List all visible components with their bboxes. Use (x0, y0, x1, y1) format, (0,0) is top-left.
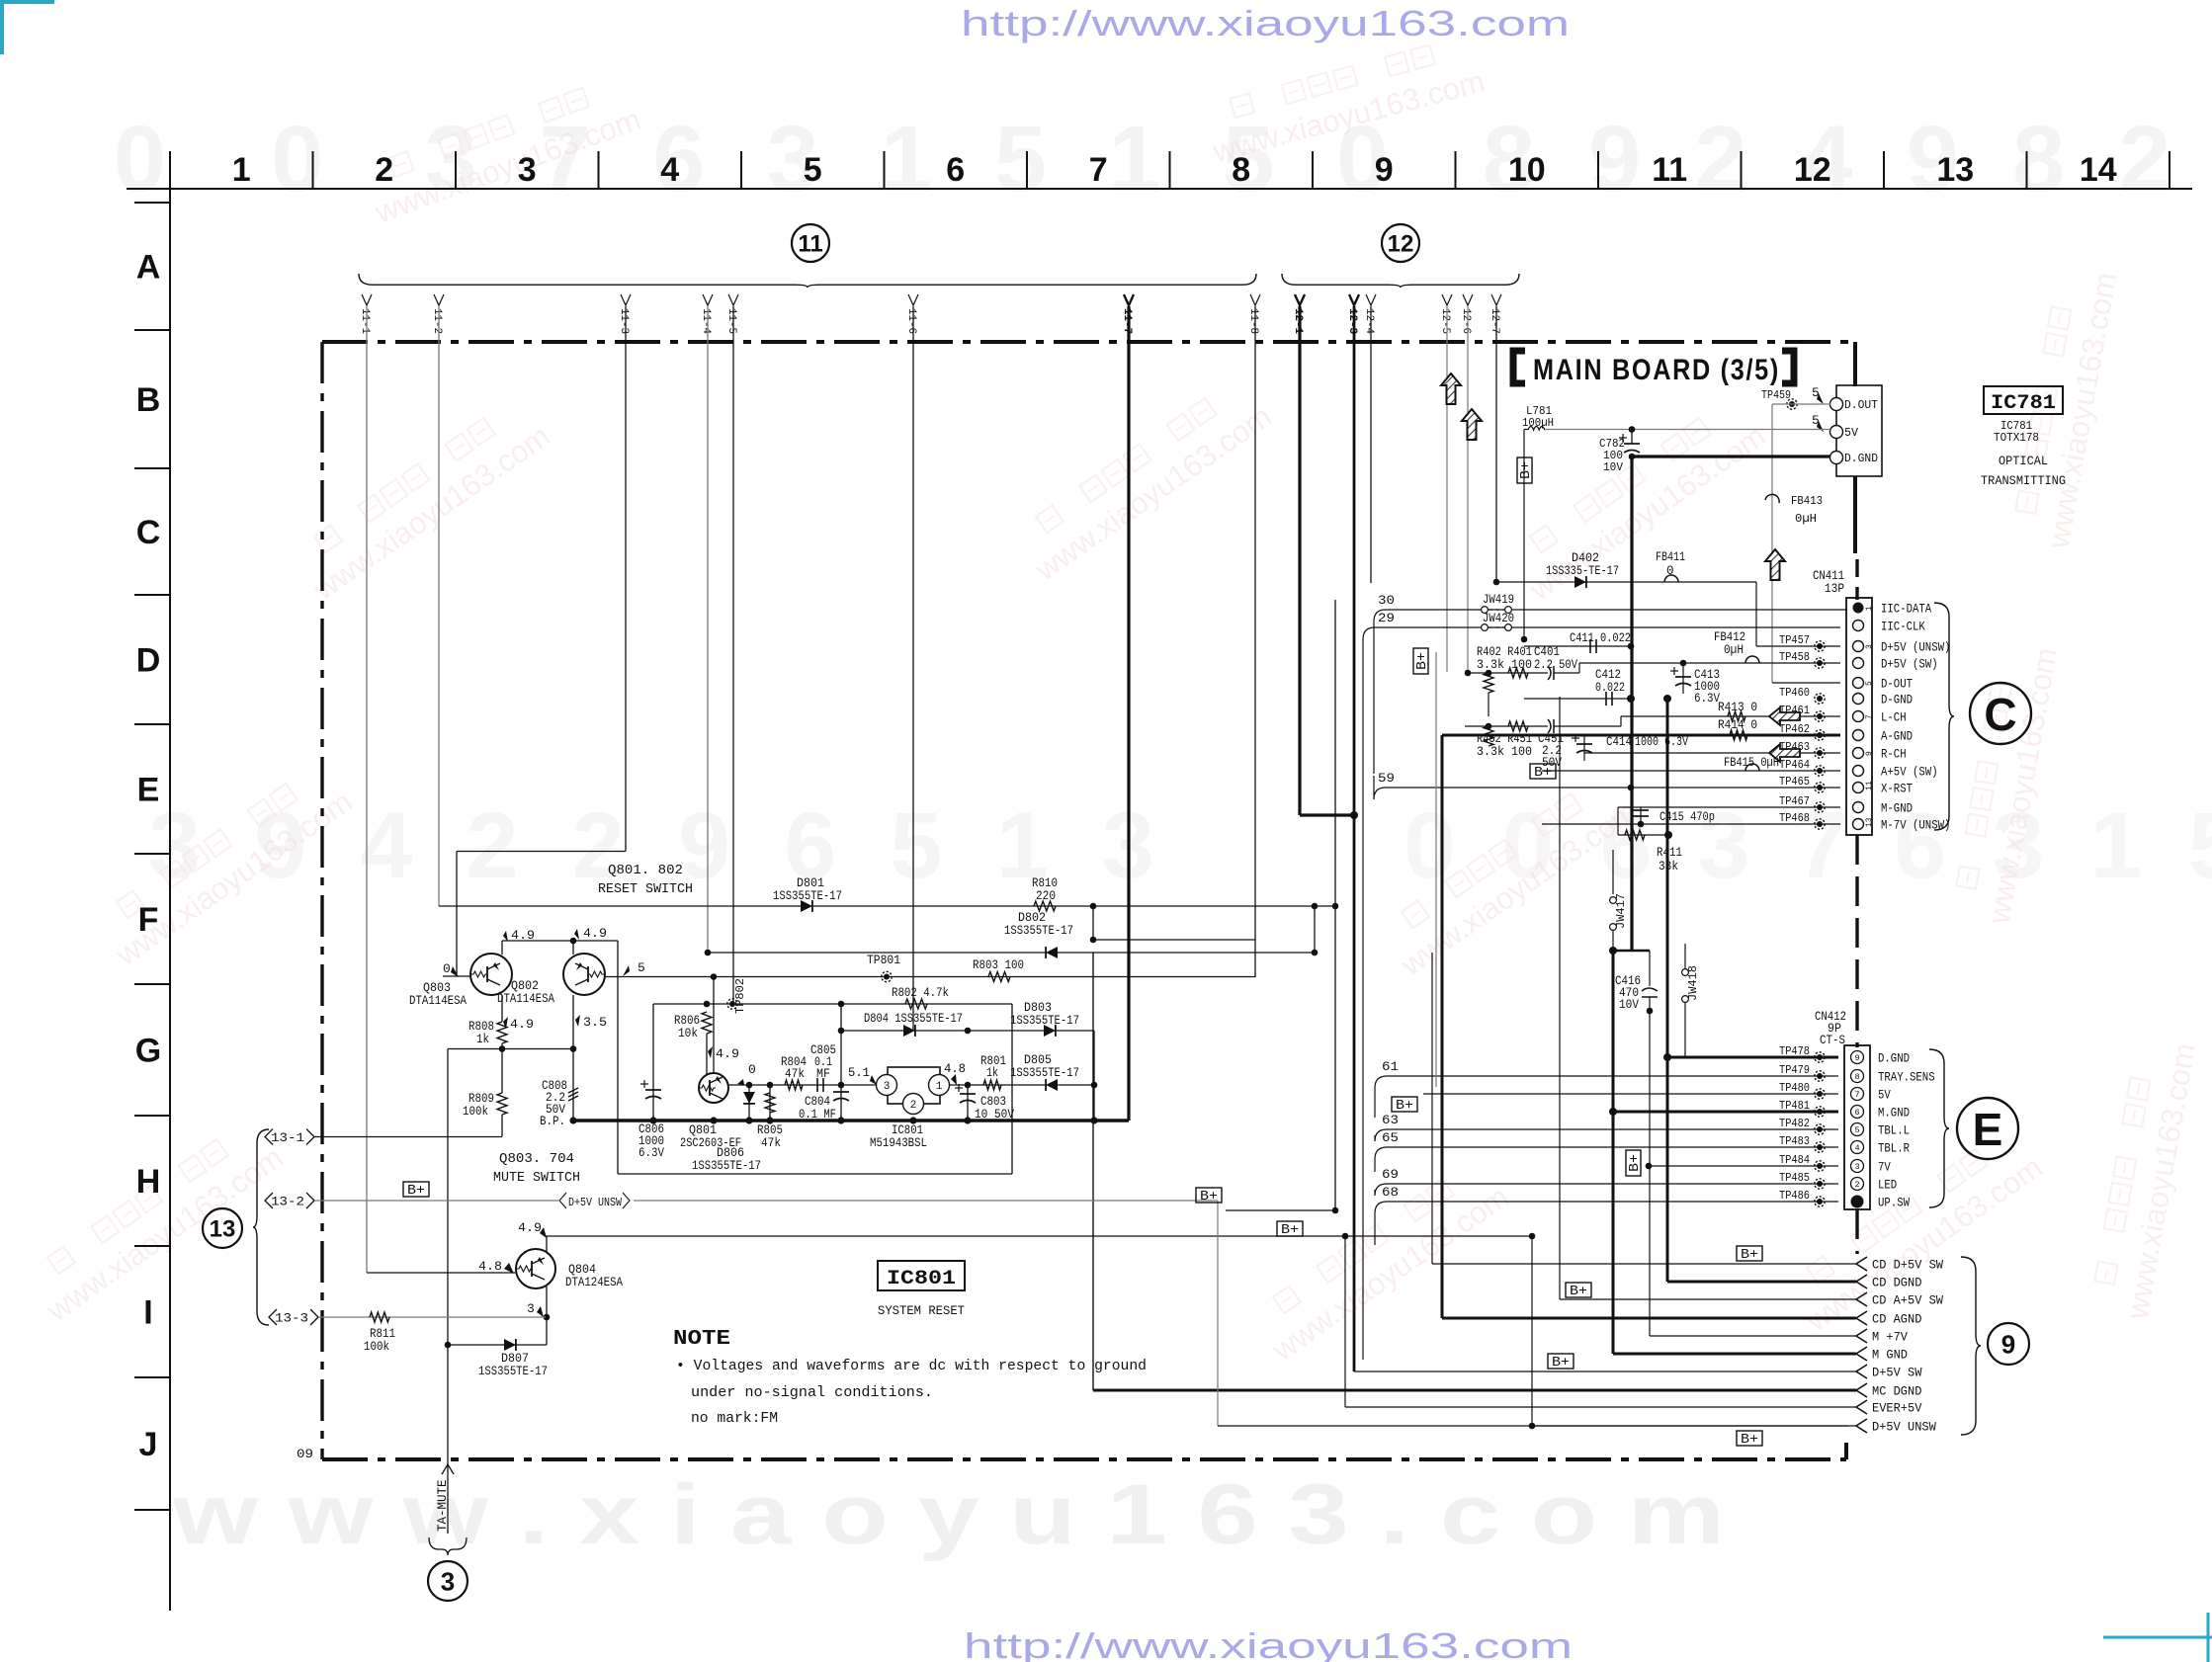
wire 65 (1375, 1147, 1387, 1159)
test point TP467 (1815, 802, 1825, 812)
svg-text:6: 6 (1854, 1108, 1859, 1118)
svg-text:1k: 1k (986, 1066, 998, 1080)
svg-text:C401: C401 (1534, 645, 1560, 659)
svg-text:M +7V: M +7V (1872, 1330, 1908, 1345)
svg-text:1SS355TE-17: 1SS355TE-17 (478, 1365, 548, 1378)
diode D807 row (448, 1344, 547, 1346)
svg-text:D807: D807 (501, 1352, 529, 1366)
svg-text:IIC-CLK: IIC-CLK (1881, 620, 1925, 634)
connector CN411 body (1846, 598, 1872, 835)
test point TP480 (1815, 1089, 1825, 1099)
svg-text:13-2: 13-2 (271, 1196, 304, 1209)
svg-text:1: 1 (1865, 606, 1874, 611)
wire 12-4 drop (1370, 306, 1372, 583)
svg-text:www.xiaoyu163.com: www.xiaoyu163.com (40, 1139, 289, 1328)
ruler tick 9 (1455, 151, 1457, 189)
wire D801 row (917) (439, 905, 1335, 907)
connector CN412 body (1844, 1045, 1870, 1209)
test point TP482 (1815, 1124, 1825, 1134)
svg-text:12-4: 12-4 (1363, 308, 1375, 334)
svg-text:4.9: 4.9 (510, 1017, 534, 1032)
exit wire CD D+5V SW (1432, 1263, 1856, 1265)
svg-text:0.022: 0.022 (1595, 681, 1625, 695)
svg-text:M.GND: M.GND (1878, 1106, 1910, 1121)
board outline right edge dash D (CN411-CN412) (1855, 835, 1858, 1047)
brace 13 group (253, 1129, 269, 1325)
wire TRAY.SENS to pin8 (1814, 1075, 1838, 1077)
svg-text:TP461: TP461 (1779, 704, 1810, 717)
svg-text:7: 7 (1089, 151, 1108, 189)
exit wire M +7V (1650, 1335, 1856, 1337)
svg-text:11-1: 11-1 (359, 308, 371, 334)
wire 11-7 drop (thick) (1127, 306, 1130, 1121)
svg-text:11-2: 11-2 (431, 308, 443, 334)
wire Q804 collector down (546, 1287, 548, 1345)
svg-text:www.xiaoyu163.com: www.xiaoyu163.com (306, 418, 555, 607)
svg-text:www.xiaoyu163.com: www.xiaoyu163.com (2119, 1040, 2202, 1322)
svg-text:TP465: TP465 (1779, 775, 1810, 789)
svg-text:3: 3 (884, 1081, 891, 1093)
svg-text:Q804: Q804 (568, 1263, 596, 1277)
wire L781 left + down (1524, 429, 1528, 431)
svg-text:13: 13 (1865, 817, 1874, 827)
svg-text:5: 5 (804, 151, 822, 189)
svg-text:12: 12 (1388, 231, 1414, 258)
connector arrow 12-6 (1463, 294, 1473, 305)
svg-text:MAIN BOARD (3/5): MAIN BOARD (3/5) (1533, 354, 1780, 386)
wire M-GND row (1618, 806, 1840, 808)
vertical to D+5V UNSW line (1531, 1236, 1533, 1426)
IC781 pin 5V (1830, 426, 1843, 439)
B+ box right of 13-2 wire (1196, 1188, 1222, 1203)
vertical aux 1453 (1435, 652, 1437, 1087)
wire FB413 / D-OUT vertical (1771, 404, 1773, 683)
wire M GND bus (thick) (1612, 951, 1615, 1354)
svg-text:CD DGND: CD DGND (1872, 1276, 1922, 1290)
vertical from wire29 hook down (1362, 639, 1364, 1360)
svg-text:10V: 10V (1619, 998, 1639, 1012)
ruler tick 1 (312, 151, 314, 189)
CN412 pin 5 TBL.L (1851, 1123, 1864, 1136)
svg-text:100k: 100k (463, 1105, 488, 1119)
svg-text:1: 1 (936, 1081, 943, 1093)
svg-text:2: 2 (1854, 1180, 1859, 1190)
brace 9 group (1961, 1257, 1981, 1435)
svg-text:R413 0: R413 0 (1718, 701, 1757, 714)
test point TP458 (1815, 658, 1825, 668)
test point TP486 (1815, 1197, 1825, 1206)
svg-text:12-1: 12-1 (1292, 308, 1304, 334)
svg-text:M GND: M GND (1872, 1348, 1908, 1363)
B+ box 5V row (1392, 1097, 1417, 1112)
wire M+7V vertical (1649, 1011, 1651, 1336)
exit arrow 13-3 (269, 1309, 277, 1325)
B+ rotated box 7V row (1626, 1150, 1641, 1176)
connector arrow 12-7 (1491, 294, 1501, 305)
svg-text:1SS355TE-17: 1SS355TE-17 (773, 889, 842, 903)
svg-text:9: 9 (1865, 751, 1874, 756)
ruler tick 3 (598, 151, 600, 189)
svg-text:R810: R810 (1032, 876, 1058, 890)
svg-text:CT-S: CT-S (1820, 1034, 1845, 1047)
wire 12-3 drop (thick) (1353, 306, 1356, 1371)
svg-text:47k: 47k (761, 1136, 781, 1150)
connector arrow 11-5 (728, 294, 738, 305)
svg-text:3: 3 (518, 151, 537, 189)
svg-text:B+: B+ (1570, 1285, 1587, 1299)
IC781 component box (1836, 385, 1882, 476)
svg-text:TP484: TP484 (1779, 1153, 1810, 1167)
svg-text:SYSTEM RESET: SYSTEM RESET (878, 1303, 965, 1318)
B+ box 13-2 (403, 1182, 429, 1197)
svg-text:F: F (138, 901, 159, 939)
row tick 10 (134, 1509, 170, 1511)
svg-text:B: B (136, 381, 161, 419)
svg-text:5V: 5V (1878, 1088, 1891, 1103)
brace E group (1929, 1049, 1949, 1207)
wire 59 / X-RST (1374, 788, 1386, 799)
svg-text:TP479: TP479 (1779, 1063, 1810, 1077)
transistor Q803 (470, 954, 512, 995)
svg-text:1SS355TE-17: 1SS355TE-17 (1004, 924, 1073, 938)
svg-text:69: 69 (1382, 1167, 1399, 1182)
B+ box D+5V UNSW row (1737, 1431, 1762, 1446)
wire Q802 down (572, 995, 574, 1049)
test point TP457 (1815, 641, 1825, 651)
ferrite bead FB413 (1765, 494, 1779, 503)
exit wire M GND (1613, 1353, 1856, 1356)
svg-text:R811: R811 (370, 1327, 395, 1341)
svg-text:IC801: IC801 (892, 1123, 923, 1137)
test point TP464 (1815, 766, 1825, 776)
row tick 5 (134, 853, 170, 855)
svg-text:12: 12 (1794, 151, 1831, 189)
CN412 pin 3 7V (1851, 1160, 1864, 1173)
wire right rail down (617, 941, 619, 1174)
svg-text:12-5: 12-5 (1439, 308, 1451, 334)
svg-text:6.3V: 6.3V (1694, 692, 1720, 706)
svg-text:R805: R805 (757, 1123, 783, 1137)
wire 69 (1375, 1184, 1387, 1196)
svg-text:www.xiaoyu163.com: www.xiaoyu163.com (1265, 1179, 1514, 1368)
circle label 13 (203, 1208, 242, 1248)
svg-text:• Voltages and waveforms are d: • Voltages and waveforms are dc with res… (676, 1358, 1147, 1374)
exit wire CD A+5V SW (1560, 1298, 1856, 1300)
svg-text:C412: C412 (1595, 668, 1621, 682)
svg-text:MUTE SWITCH: MUTE SWITCH (493, 1170, 580, 1186)
svg-text:61: 61 (1382, 1059, 1399, 1074)
svg-text:4.8: 4.8 (944, 1061, 966, 1076)
svg-text:4.9: 4.9 (511, 928, 535, 943)
svg-text:12-7: 12-7 (1489, 308, 1500, 334)
svg-text:4.9: 4.9 (518, 1220, 542, 1235)
row tick 0 (134, 202, 170, 204)
row tick 6 (134, 983, 170, 985)
wire L-CH row (1554, 725, 1621, 727)
wire 12-5 drop (1446, 306, 1448, 672)
wire 11-3 drop (625, 306, 627, 852)
svg-text:9: 9 (1854, 1053, 1859, 1063)
svg-text:EVER+5V: EVER+5V (1872, 1401, 1922, 1416)
circle label 3 (428, 1561, 468, 1601)
brace for group 12 (1282, 274, 1519, 288)
svg-text:CD D+5V SW: CD D+5V SW (1872, 1258, 1943, 1273)
CN411 pin 10 A+5V (SW) (1853, 766, 1864, 777)
CN412 pin 6 M.GND (1851, 1106, 1864, 1119)
svg-text:59: 59 (1378, 771, 1395, 786)
CN411 pin 5 D-OUT (1853, 678, 1864, 689)
brace for group 11 (359, 274, 1256, 288)
board outline top edge (322, 340, 1855, 344)
svg-text:JW419: JW419 (1483, 593, 1514, 607)
svg-text:6.3V: 6.3V (638, 1146, 664, 1160)
CN412 pin 8 TRAY.SENS (1851, 1070, 1864, 1083)
svg-text:TRAY.SENS: TRAY.SENS (1878, 1070, 1935, 1085)
svg-text:R808: R808 (468, 1020, 494, 1034)
svg-text:30: 30 (1378, 593, 1395, 608)
exit wire D+5V UNSW (1532, 1425, 1856, 1427)
wire 61 (1375, 1076, 1387, 1088)
svg-text:RESET SWITCH: RESET SWITCH (598, 881, 693, 897)
jumper JW418 (1684, 944, 1686, 969)
test point TP468 (1815, 819, 1825, 829)
svg-text:5V: 5V (1844, 427, 1858, 440)
svg-text:3.3k 100: 3.3k 100 (1477, 745, 1532, 759)
svg-text:4: 4 (1854, 1143, 1859, 1153)
svg-text:D806: D806 (717, 1146, 744, 1160)
svg-text:A-GND: A-GND (1881, 729, 1913, 744)
wire A+5V(SW) row (1542, 770, 1840, 772)
svg-text:M-7V (UNSW): M-7V (UNSW) (1881, 818, 1950, 833)
CN411 pin 12 M-GND (1853, 802, 1864, 813)
CN411 pin 6 D-GND (1853, 694, 1864, 705)
inline label D+5V UNSW (558, 1193, 634, 1208)
hatched arrow under FB413 (1765, 549, 1785, 580)
svg-text:TBL.R: TBL.R (1878, 1141, 1910, 1156)
svg-text:FB411: FB411 (1656, 550, 1685, 564)
pink diagonal watermarks (290, 393, 556, 608)
CN411 pin 9 R-CH (1853, 748, 1864, 759)
svg-text:8: 8 (1232, 151, 1250, 189)
svg-text:6: 6 (946, 151, 965, 189)
svg-text:7: 7 (1854, 1090, 1859, 1100)
svg-text:1SS355TE-17: 1SS355TE-17 (692, 1159, 761, 1173)
wire 951 row (1093, 939, 1255, 941)
board outline right edge dash C (1855, 559, 1858, 600)
svg-text:TP801: TP801 (867, 954, 900, 967)
wire Q803 base stub (443, 975, 470, 977)
wire 7V CN412 (1649, 1165, 1838, 1167)
svg-text:R-CH: R-CH (1881, 747, 1907, 762)
svg-text:G: G (135, 1033, 161, 1070)
wire Q803 collector up (501, 941, 503, 955)
wire L781 to 5V pin (1545, 429, 1830, 431)
svg-text:4: 4 (660, 151, 679, 189)
wire 5V CN412 (1423, 1093, 1838, 1095)
svg-text:R803 100: R803 100 (973, 958, 1024, 972)
junction 12-7/D402 (1493, 579, 1500, 586)
svg-text:L-CH: L-CH (1881, 710, 1907, 725)
svg-text:LED: LED (1878, 1178, 1897, 1193)
svg-text:0µH: 0µH (1795, 512, 1817, 526)
connector arrow 11-7 (1124, 294, 1134, 305)
svg-text:A+5V (SW): A+5V (SW) (1881, 765, 1938, 780)
svg-text:1000 6.3V: 1000 6.3V (1635, 735, 1688, 749)
wire 68 (1375, 1202, 1387, 1213)
exit arrow 13-2 (265, 1193, 273, 1208)
svg-text:www.xiaoyu163.com: www.xiaoyu163.com (1799, 1149, 2048, 1338)
wire 11-2 drop (438, 306, 440, 906)
svg-text:http://www.xiaoyu163.com: http://www.xiaoyu163.com (964, 1625, 1573, 1662)
test point TP461 (1815, 711, 1825, 721)
test point TP485 (1815, 1179, 1825, 1189)
svg-text:9: 9 (1375, 151, 1394, 189)
svg-text:3.5: 3.5 (583, 1015, 607, 1030)
wire left rail down from R808 row (447, 1049, 449, 1346)
svg-text:TP464: TP464 (1779, 758, 1810, 772)
vertical CD A+5V SW (1559, 697, 1561, 1299)
svg-text:B+: B+ (1396, 1099, 1413, 1114)
transistor Q802 (563, 954, 605, 995)
svg-text:C803: C803 (980, 1095, 1006, 1109)
board outline right edge segment B (1853, 476, 1857, 553)
svg-text:TP482: TP482 (1779, 1117, 1810, 1130)
ruler tick 4 (740, 151, 742, 189)
svg-text:3: 3 (1865, 644, 1874, 649)
svg-text:D+5V SW: D+5V SW (1872, 1366, 1922, 1380)
exit wire CD DGND (1667, 1281, 1856, 1284)
svg-text:2: 2 (375, 151, 393, 189)
svg-text:65: 65 (1382, 1130, 1399, 1145)
B+ box CD D+5V (1737, 1246, 1762, 1261)
wire 11-1 drop (366, 306, 368, 1273)
svg-text:47k: 47k (785, 1067, 805, 1081)
svg-text:R806: R806 (674, 1014, 700, 1028)
transistor Q804 (516, 1249, 555, 1288)
wire D402 corner down to pin3 (1755, 582, 1757, 646)
row tick 1 (134, 329, 170, 331)
svg-text:DTA114ESA: DTA114ESA (409, 994, 467, 1008)
svg-text:R802 4.7k: R802 4.7k (892, 986, 949, 1000)
svg-text:B+: B+ (407, 1184, 425, 1199)
test point TP802 (727, 999, 737, 1009)
B+ box A+5V (1530, 764, 1556, 779)
wire B+ 1225 row (1226, 1209, 1335, 1211)
svg-text:9: 9 (2001, 1329, 2015, 1359)
svg-text:13: 13 (210, 1216, 236, 1243)
circle label E (1957, 1098, 2018, 1159)
CN411 pin 1 IIC-DATA (1853, 603, 1864, 614)
wire 11-6 drop (912, 306, 914, 1031)
B+ box CD A+5V (1566, 1283, 1591, 1297)
row tick 2 (134, 467, 170, 469)
connector arrow 12-3 (1349, 294, 1359, 305)
test point TP483 (1815, 1142, 1825, 1152)
svg-text:R809: R809 (468, 1092, 494, 1106)
junction Q801 collector (711, 973, 718, 980)
svg-text:D: D (136, 642, 161, 680)
cyan corner mark bottom-right (2103, 1613, 2212, 1662)
wire 29 (1363, 627, 1375, 639)
IC781 pin D.OUT (1830, 398, 1843, 411)
svg-text:TP462: TP462 (1779, 722, 1810, 736)
board outline right edge tick bottom (1844, 1443, 1848, 1459)
ruler tick 7 (1169, 151, 1171, 189)
wire 13-3 row (318, 1316, 546, 1318)
svg-text:MC DGND: MC DGND (1872, 1384, 1922, 1399)
svg-text:R402 R401: R402 R401 (1477, 645, 1532, 659)
svg-text:B+: B+ (1552, 1356, 1570, 1371)
svg-text:FB412: FB412 (1714, 630, 1745, 644)
svg-text:TP486: TP486 (1779, 1189, 1810, 1203)
wire A-GND row thick (1442, 734, 1840, 737)
vertical CD AGND (thick) (1441, 735, 1444, 1318)
wire D.GND CN412 (thick) (1667, 1056, 1838, 1059)
wire R808 bottom rail (448, 1048, 573, 1050)
wire R802 row (1016) (653, 1003, 1012, 1005)
wire 12-7 drop (1495, 306, 1497, 582)
cyan corner mark top-left (0, 0, 54, 54)
CN412 pin 7 5V (1851, 1088, 1864, 1101)
wire Q801 collector (713, 977, 715, 1074)
wire UP.SW to pin1 (1814, 1201, 1838, 1203)
svg-text:w w w . x i a o y u 1 6 3 .: w w w . x i a o y u 1 6 3 . c o m (172, 1467, 1725, 1562)
svg-text:TBL.L: TBL.L (1878, 1123, 1910, 1138)
B+ box near 12-1 (1277, 1221, 1303, 1236)
svg-text:M-GND: M-GND (1881, 801, 1913, 816)
IC801 label box (878, 1261, 965, 1290)
svg-text:Q803. 704: Q803. 704 (499, 1151, 574, 1167)
connector arrow 11-8 (1250, 294, 1260, 305)
svg-text:E: E (137, 772, 160, 809)
wire M.GND CN412 (thick) (1613, 1111, 1838, 1114)
svg-text:D-OUT: D-OUT (1881, 677, 1913, 692)
svg-text:5: 5 (638, 960, 645, 975)
exit wire CD AGND (1442, 1317, 1856, 1320)
IC781 pin D.GND (1830, 452, 1843, 464)
wire Q803 base vertical (456, 852, 458, 977)
wire IC801 pin1 to right (949, 1084, 1094, 1086)
svg-text:I: I (143, 1294, 152, 1332)
svg-text:TP460: TP460 (1779, 686, 1810, 700)
svg-text:2: 2 (910, 1100, 917, 1112)
svg-text:B+: B+ (1741, 1433, 1758, 1448)
svg-text:4.8: 4.8 (478, 1259, 502, 1274)
wire TA-MUTE drop (447, 1345, 449, 1534)
wire 4.9 top rail (502, 940, 618, 942)
vertical join right of IC801 (1093, 1031, 1095, 1121)
wire 11-4 drop (707, 306, 709, 953)
svg-text:D+5V UNSW: D+5V UNSW (1872, 1420, 1936, 1435)
verticals under hooks (1374, 1088, 1376, 1118)
svg-text:E: E (1973, 1104, 2003, 1155)
svg-text:B+: B+ (1534, 766, 1552, 781)
row tick 8 (134, 1245, 170, 1247)
svg-text:13P: 13P (1825, 582, 1844, 596)
wire Q804 emitter B+ line (546, 1235, 1532, 1237)
svg-text:B+: B+ (1741, 1248, 1758, 1263)
svg-text:11-7: 11-7 (1121, 308, 1133, 334)
brace C group (1934, 603, 1954, 830)
CN411 pin 11 X-RST (1853, 783, 1864, 793)
svg-text:13-3: 13-3 (275, 1312, 308, 1326)
svg-text:D+5V UNSW: D+5V UNSW (568, 1196, 623, 1209)
svg-text:1SS355TE-17: 1SS355TE-17 (1010, 1066, 1079, 1080)
svg-text:TP463: TP463 (1779, 740, 1810, 754)
svg-text:TP458: TP458 (1779, 650, 1810, 664)
wire Q801 emitter row (728, 1084, 877, 1086)
test point TP484 (1815, 1161, 1825, 1171)
